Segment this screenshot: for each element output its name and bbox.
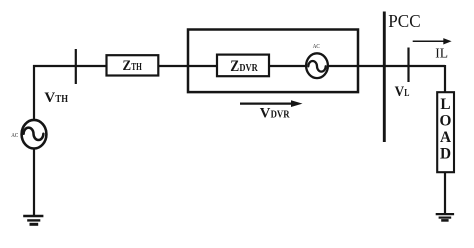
ground (right) xyxy=(436,214,454,220)
svg-text:V: V xyxy=(395,84,405,100)
arrow VDVR xyxy=(240,100,303,107)
svg-text:A: A xyxy=(440,129,451,146)
wire: load box bottom to ground xyxy=(444,172,446,213)
svg-text:AC: AC xyxy=(11,132,18,139)
wire: from AC source bottom down to ground xyxy=(33,149,35,216)
ac source AC1 (Thevenin source) xyxy=(22,120,47,149)
svg-text:D: D xyxy=(440,146,451,163)
wire: main horizontal from source corner to load corner xyxy=(33,65,445,67)
ground (left) xyxy=(23,216,43,224)
svg-text:TH: TH xyxy=(55,94,68,105)
svg-text:V: V xyxy=(44,90,55,106)
svg-text:AC: AC xyxy=(313,43,320,50)
impedance box ZDVR xyxy=(217,55,269,77)
svg-text:IL: IL xyxy=(435,46,448,61)
label VL xyxy=(395,84,410,100)
svg-text:DVR: DVR xyxy=(271,109,290,120)
arrow IL xyxy=(413,38,452,44)
impedance box ZTH xyxy=(107,55,159,75)
node tick mark on source line xyxy=(75,49,77,84)
svg-text:PCC: PCC xyxy=(388,11,420,31)
svg-text:Z: Z xyxy=(123,58,132,74)
label ZTH xyxy=(123,58,142,74)
svg-text:DVR: DVR xyxy=(239,63,258,74)
svg-text:V: V xyxy=(260,105,271,121)
node tick mark VL xyxy=(407,48,409,83)
svg-text:L: L xyxy=(404,88,409,99)
load box xyxy=(437,92,454,172)
svg-text:Z: Z xyxy=(230,58,239,75)
svg-text:TH: TH xyxy=(131,62,142,73)
label VDVR xyxy=(260,105,290,121)
label ZDVR xyxy=(230,58,258,75)
svg-text:L: L xyxy=(440,96,450,113)
label VTH xyxy=(44,90,68,106)
DVR outer box xyxy=(188,30,358,93)
ac source AC2 (DVR injection source) xyxy=(306,53,328,78)
svg-text:O: O xyxy=(440,112,452,129)
label LOAD (vertical letters) xyxy=(440,96,452,163)
PCC bus bar xyxy=(383,12,386,143)
wire: left vertical from corner down to AC source top xyxy=(33,65,35,120)
wire: down from main wire to load box xyxy=(444,65,446,92)
